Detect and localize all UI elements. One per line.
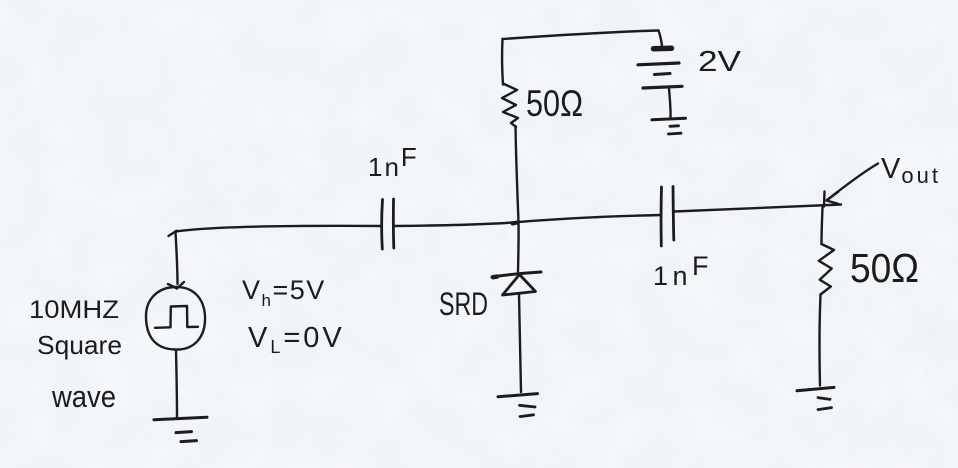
ground G3 bar bbox=[498, 394, 538, 397]
capacitor C1 left plate bbox=[380, 200, 384, 250]
ground G3 dash 1 bbox=[520, 405, 536, 407]
svg-text:10MHZ: 10MHZ bbox=[29, 296, 119, 324]
wire battery drop bbox=[659, 31, 663, 47]
ground G2 dash 1 bbox=[670, 124, 679, 127]
ground G3 dash 2 bbox=[520, 415, 534, 417]
ground G4 dash 2 bbox=[818, 408, 832, 410]
ground G1 dash 2 bbox=[181, 441, 197, 442]
svg-text:Square: Square bbox=[37, 330, 122, 360]
battery B1 plate 3 (short) bbox=[655, 74, 671, 75]
battery B1 plate 4 (long) bbox=[643, 86, 682, 88]
svg-text:VL=0V: VL=0V bbox=[248, 322, 345, 357]
ground G1 bar bbox=[154, 417, 207, 420]
wire R1 top to corner bbox=[501, 39, 504, 85]
wire main horizontal segment right (C2 to output node) bbox=[674, 205, 841, 212]
svg-text:50Ω: 50Ω bbox=[526, 83, 583, 124]
pulse symbol inside source bbox=[155, 306, 198, 328]
svg-text:wave: wave bbox=[51, 379, 116, 414]
wire output node to R2 bbox=[822, 208, 823, 245]
wire R2 to ground G4 bbox=[820, 295, 821, 386]
wire battery to ground G2 bbox=[669, 89, 671, 118]
resistor R2 50ohm zigzag bbox=[819, 244, 834, 295]
ground G1 dash 1 bbox=[176, 432, 192, 433]
wire generator to ground G1 bbox=[176, 350, 177, 418]
Vout arrowhead bbox=[827, 192, 839, 204]
battery B1 plate 2 (long) bbox=[638, 63, 679, 65]
battery B1 plate 1 (thick) bbox=[654, 45, 672, 51]
capacitor C2 left plate bbox=[660, 187, 663, 246]
capacitor C1 right plate bbox=[392, 199, 395, 248]
wire source node down to generator bbox=[176, 232, 178, 284]
ground G2 bar bbox=[652, 118, 686, 120]
wire SRD to ground G3 bbox=[519, 295, 521, 393]
wire top horizontal (corner to battery) bbox=[503, 31, 659, 40]
diode D1 bar pen-start blob bbox=[493, 274, 497, 279]
output node vertical stub bbox=[823, 192, 826, 207]
node junction dot at main wire bbox=[513, 223, 518, 224]
wire main horizontal segment middle (C1 to C2) bbox=[394, 215, 661, 226]
junction tick at source node bbox=[169, 231, 177, 236]
arrowhead at generator top bbox=[168, 282, 184, 289]
wire branch vertical through node (R1 bottom to SRD top) bbox=[516, 126, 519, 272]
ground G4 bar bbox=[797, 387, 834, 390]
svg-text:Vh=5V: Vh=5V bbox=[242, 275, 326, 310]
ground G2 dash 2 bbox=[669, 132, 682, 136]
diode D1 SRD cathode bar bbox=[492, 272, 541, 277]
svg-text:50Ω: 50Ω bbox=[850, 245, 919, 291]
resistor R1 50ohm zigzag bbox=[502, 84, 518, 127]
wire main horizontal segment left (source node to C1) bbox=[176, 226, 382, 232]
diode D1 SRD triangle bbox=[503, 275, 536, 296]
svg-text:SRD: SRD bbox=[439, 286, 488, 322]
capacitor C2 right plate bbox=[672, 187, 676, 241]
voltage source V1 circle (10MHz square wave generator) bbox=[146, 287, 205, 350]
ground G4 dash 1 bbox=[818, 398, 830, 400]
svg-text:2V: 2V bbox=[698, 46, 742, 78]
Vout arrow shaft bbox=[827, 164, 878, 201]
